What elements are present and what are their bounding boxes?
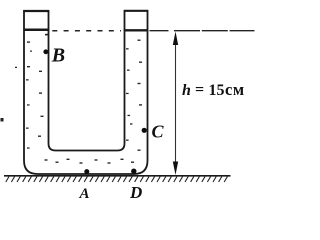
svg-text:см: см: [225, 80, 245, 99]
h arrow top head: [173, 32, 178, 46]
right tube top rim: [124, 10, 149, 12]
U-tube outer wall: [24, 11, 148, 175]
liquid speckles left tube: [26, 41, 44, 148]
scan noise marks: [1, 34, 133, 125]
svg-text:=: =: [195, 82, 204, 99]
dot A: [84, 169, 89, 174]
svg-text:15: 15: [209, 82, 225, 99]
dot B: [43, 49, 48, 54]
dot D: [131, 169, 136, 174]
level line right of tube: [150, 30, 169, 32]
liquid speckles bottom channel: [45, 159, 135, 164]
svg-text:h: h: [182, 82, 191, 99]
ground line: [4, 175, 231, 177]
liquid speckles right tube: [126, 40, 142, 151]
svg-text:C: C: [152, 122, 165, 142]
dot C: [142, 128, 147, 133]
svg-text:B: B: [51, 45, 65, 67]
level line right segment: [174, 30, 255, 32]
dashed level line between tubes: [52, 30, 121, 32]
left tube top rim: [23, 10, 49, 12]
svg-text:A: A: [79, 186, 90, 202]
ground hatching: [6, 177, 228, 183]
h arrow shaft: [175, 42, 177, 164]
right tube liquid surface line: [124, 29, 148, 31]
h arrow bottom head: [173, 162, 178, 176]
U-tube inner wall: [49, 11, 125, 151]
left tube liquid surface line: [24, 28, 50, 31]
svg-text:D: D: [129, 183, 142, 202]
